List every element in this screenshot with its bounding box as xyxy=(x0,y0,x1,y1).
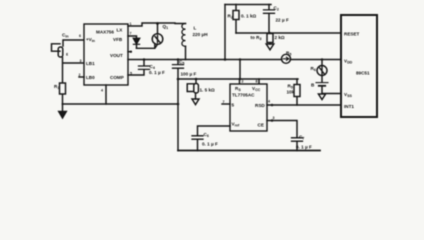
svg-text:5: 5 xyxy=(130,72,132,76)
svg-text:R5: R5 xyxy=(286,51,291,57)
svg-text:100 μ F: 100 μ F xyxy=(181,72,197,77)
svg-text:VOUT: VOUT xyxy=(110,53,123,58)
svg-text:5: 5 xyxy=(232,103,235,108)
svg-text:Q1: Q1 xyxy=(163,24,169,30)
svg-text:B: B xyxy=(311,83,315,88)
svg-text:2: 2 xyxy=(79,73,81,77)
svg-text:LB0: LB0 xyxy=(86,75,95,80)
svg-text:2 kΩ: 2 kΩ xyxy=(275,35,285,40)
svg-text:C6: C6 xyxy=(204,132,209,138)
svg-text:220 μH: 220 μH xyxy=(193,32,209,37)
svg-text:8: 8 xyxy=(256,80,258,84)
svg-text:TL7705AC: TL7705AC xyxy=(232,93,255,98)
svg-text:ε: ε xyxy=(66,52,69,57)
svg-text:7: 7 xyxy=(223,100,225,104)
svg-text:COMP: COMP xyxy=(110,75,124,80)
svg-text:0. 1 μ F: 0. 1 μ F xyxy=(149,70,165,75)
svg-text:C2: C2 xyxy=(274,6,279,12)
svg-text:4: 4 xyxy=(101,89,103,93)
svg-text:LB1: LB1 xyxy=(86,61,95,66)
svg-text:Cin: Cin xyxy=(62,33,69,39)
svg-text:0. 1 kΩ: 0. 1 kΩ xyxy=(241,14,256,19)
svg-text:0. 1 μ F: 0. 1 μ F xyxy=(202,142,218,147)
svg-text:0. 1 μ F: 0. 1 μ F xyxy=(296,145,312,150)
svg-text:3: 3 xyxy=(80,59,82,63)
svg-text:1. 5 kΩ: 1. 5 kΩ xyxy=(200,88,215,93)
svg-text:R1: R1 xyxy=(54,84,59,90)
svg-text:R6: R6 xyxy=(311,66,316,72)
svg-text:2: 2 xyxy=(242,80,244,84)
svg-text:89C51: 89C51 xyxy=(356,71,370,76)
svg-text:VFB: VFB xyxy=(113,37,123,42)
svg-text:C7: C7 xyxy=(299,135,304,141)
svg-text:RESET: RESET xyxy=(344,32,360,37)
svg-text:CE: CE xyxy=(258,123,264,128)
svg-text:22 μ F: 22 μ F xyxy=(276,18,289,23)
svg-text:to R3: to R3 xyxy=(251,35,262,41)
svg-text:3: 3 xyxy=(273,116,275,120)
svg-text:MAX756: MAX756 xyxy=(96,30,114,35)
svg-text:LX: LX xyxy=(117,28,124,33)
svg-text:R2: R2 xyxy=(228,14,233,20)
svg-text:RSD: RSD xyxy=(255,103,265,108)
svg-text:4: 4 xyxy=(268,100,270,104)
svg-text:L: L xyxy=(194,26,197,31)
svg-text:10k: 10k xyxy=(287,90,295,95)
svg-text:INT1: INT1 xyxy=(344,104,354,109)
svg-text:1: 1 xyxy=(130,22,132,26)
svg-text:6: 6 xyxy=(79,34,81,38)
svg-text:7: 7 xyxy=(130,32,132,36)
